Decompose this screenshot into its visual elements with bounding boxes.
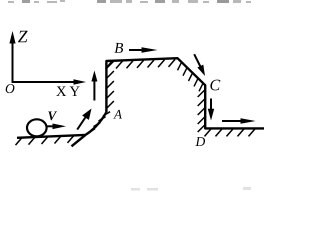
slope hatching (B to C) xyxy=(178,62,204,91)
svg-text:D: D xyxy=(194,134,205,149)
arrow above right ground xyxy=(222,118,256,124)
slope arrow (toward C) xyxy=(194,54,205,76)
vertical up arrow at wall xyxy=(91,71,97,101)
left ground line xyxy=(17,135,86,138)
incline arrow xyxy=(77,109,91,130)
axis Z (vertical arrow) xyxy=(9,31,15,83)
svg-text:O: O xyxy=(5,81,15,96)
svg-text:C: C xyxy=(209,77,220,94)
svg-text:B: B xyxy=(114,41,123,57)
svg-text:Z: Z xyxy=(18,26,28,46)
right ground hatching xyxy=(205,129,256,137)
left wall hatching xyxy=(107,61,114,108)
axis XY (horizontal arrow) xyxy=(12,79,86,84)
vertical down arrow (C to D) xyxy=(208,99,214,121)
ball (rolling wheel) xyxy=(27,119,47,136)
svg-text:X Y: X Y xyxy=(56,84,81,100)
cropped text remnants at top xyxy=(8,0,251,3)
left ground hatching xyxy=(16,135,75,145)
incline to A xyxy=(72,112,107,146)
faint page remnants at bottom xyxy=(131,187,251,191)
svg-text:A: A xyxy=(113,106,122,121)
arrow at B xyxy=(129,47,158,53)
incline hatching xyxy=(88,112,110,133)
plateau outline (wall, top, slope, right wall, right ground) xyxy=(106,58,264,128)
velocity arrow V xyxy=(46,124,67,130)
right wall hatching xyxy=(198,90,205,132)
svg-text:V: V xyxy=(47,108,57,123)
plateau top hatching xyxy=(106,59,176,68)
